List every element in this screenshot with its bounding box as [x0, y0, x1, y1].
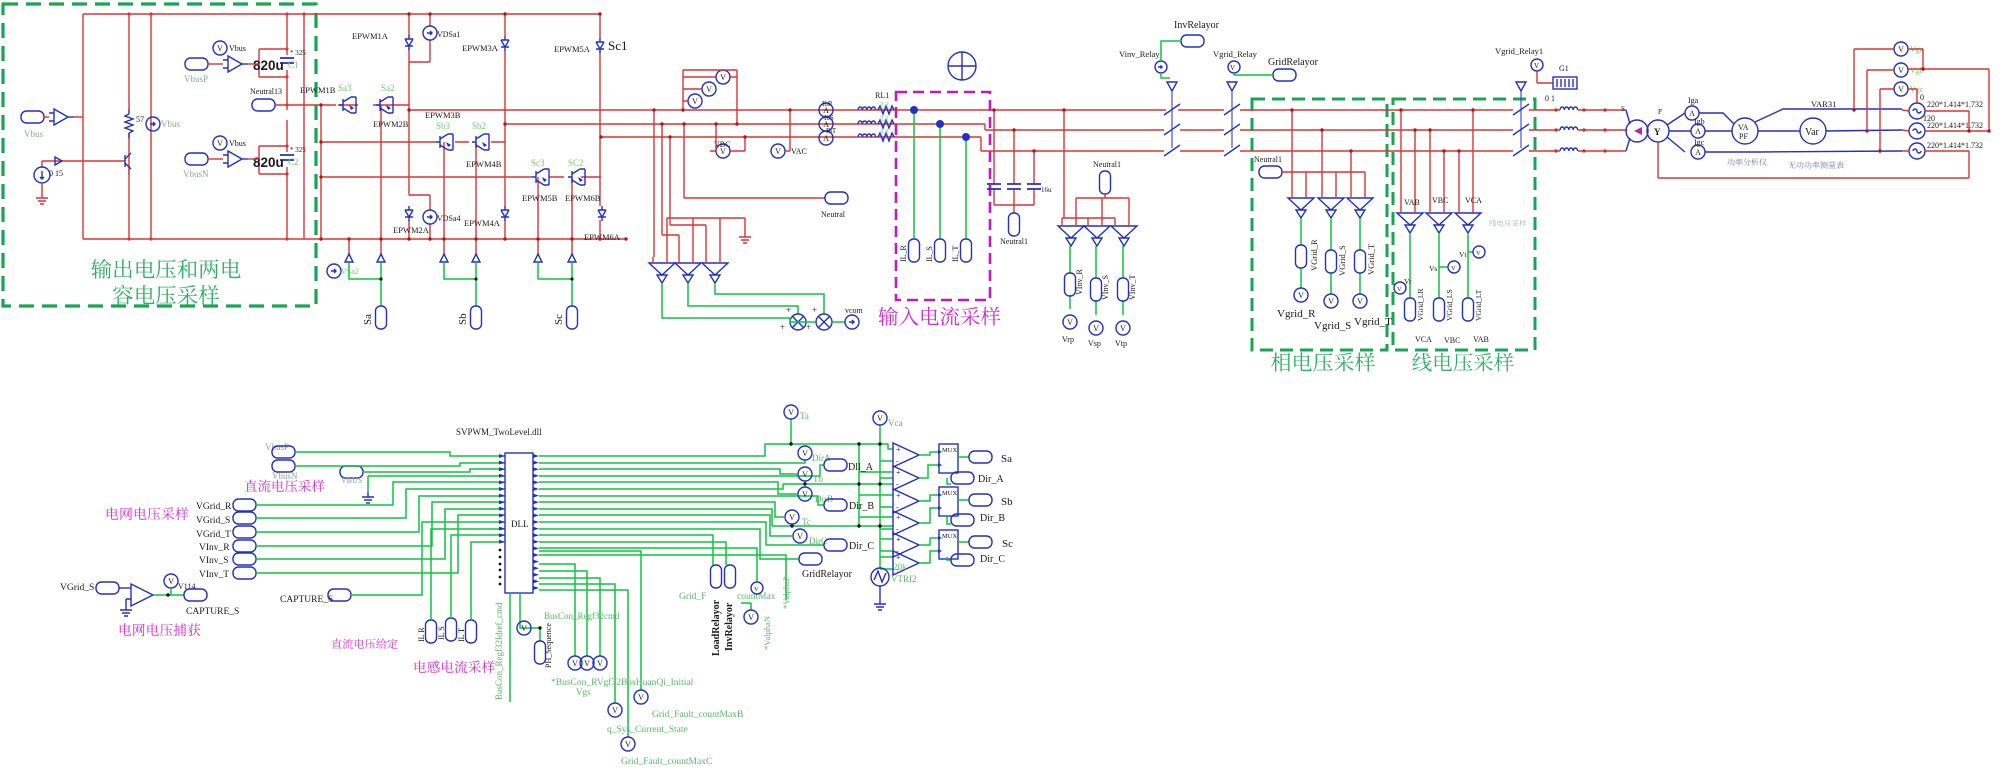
svg-text:InvRelayor: InvRelayor — [724, 602, 735, 651]
svg-text:VGrid_R: VGrid_R — [1309, 239, 1319, 271]
svg-text:Sc1: Sc1 — [608, 38, 628, 53]
svg-text:+: + — [806, 322, 811, 332]
svg-text:Dir_B: Dir_B — [980, 513, 1005, 524]
svg-text:Sb: Sb — [1001, 496, 1013, 508]
svg-text:Sa3: Sa3 — [338, 83, 352, 93]
svg-text:EPWM1A: EPWM1A — [352, 31, 389, 41]
svg-text:VBC: VBC — [1432, 196, 1448, 205]
svg-text:* 325: * 325 — [290, 49, 306, 57]
svg-text:Grid_Fault_countMaxC: Grid_Fault_countMaxC — [621, 757, 712, 767]
svg-text:Sc3: Sc3 — [531, 158, 545, 168]
svg-text:Dll_A: Dll_A — [848, 462, 874, 473]
svg-text:EPWM1B: EPWM1B — [300, 85, 336, 95]
svg-text:V: V — [1476, 250, 1481, 257]
svg-text:Vs: Vs — [1429, 264, 1437, 273]
svg-text:EPWM5B: EPWM5B — [522, 193, 558, 203]
svg-text:GridRelayor: GridRelayor — [802, 569, 853, 580]
svg-text:vcom: vcom — [845, 306, 864, 315]
svg-text:SVPWM_TwoLevel.dll: SVPWM_TwoLevel.dll — [456, 427, 542, 437]
svg-text:EPWM3A: EPWM3A — [462, 43, 499, 53]
svg-text:220*1.414*1.732: 220*1.414*1.732 — [1927, 121, 1983, 130]
svg-text:VTRI2: VTRI2 — [891, 574, 917, 584]
svg-text:VDSa4: VDSa4 — [437, 214, 461, 223]
svg-text:Sa: Sa — [1001, 453, 1012, 465]
svg-text:Vr: Vr — [1404, 277, 1412, 286]
svg-text:Neutral: Neutral — [821, 210, 846, 219]
svg-text:Vgb: Vgb — [1910, 66, 1924, 75]
svg-text:57: 57 — [136, 115, 144, 124]
svg-text:VBC: VBC — [1444, 336, 1460, 345]
svg-text:Vt: Vt — [1459, 250, 1467, 259]
svg-text:+: + — [780, 322, 785, 332]
svg-text:Neutral1: Neutral1 — [1254, 155, 1282, 164]
svg-text:Vgrid_Relay: Vgrid_Relay — [1213, 49, 1258, 59]
svg-text:VGrid_LT: VGrid_LT — [1474, 289, 1483, 321]
svg-text:VAC: VAC — [791, 147, 807, 156]
svg-text:IL R: IL R — [417, 627, 426, 642]
svg-text:IL T: IL T — [457, 628, 466, 642]
svg-text:Iga: Iga — [1688, 96, 1699, 105]
svg-text:EPWM5A: EPWM5A — [554, 44, 591, 54]
svg-text:*ValphaP: *ValphaP — [781, 576, 791, 609]
svg-text:VDSa1: VDSa1 — [437, 30, 461, 39]
svg-text:IL_S: IL_S — [925, 246, 934, 262]
svg-text:PF: PF — [1739, 132, 1748, 141]
svg-text:Ta: Ta — [800, 411, 809, 421]
svg-text:LoadRelayor: LoadRelayor — [711, 599, 722, 656]
svg-text:EPWM2A: EPWM2A — [393, 225, 430, 235]
svg-text:2.2: 2.2 — [880, 101, 889, 109]
svg-text:VBUS: VBUS — [341, 476, 362, 485]
svg-text:BusCon_Regf32Idref_cmd: BusCon_Regf32Idref_cmd — [494, 602, 504, 700]
svg-text:Tc: Tc — [802, 517, 811, 527]
svg-text:Grid_F: Grid_F — [679, 592, 706, 602]
svg-text:VGrid_S: VGrid_S — [1337, 245, 1347, 276]
svg-text:220*1.414*1.732: 220*1.414*1.732 — [1927, 141, 1983, 150]
svg-text:CAPTURE_S: CAPTURE_S — [186, 607, 239, 617]
svg-text:S: S — [1621, 105, 1625, 113]
svg-text:VCA: VCA — [1465, 196, 1482, 205]
svg-text:InvRelayor: InvRelayor — [1174, 20, 1220, 31]
svg-text:SC2: SC2 — [568, 158, 584, 168]
svg-text:DLL: DLL — [511, 519, 529, 529]
svg-text:V: V — [754, 586, 759, 593]
svg-text:Vrp: Vrp — [1062, 335, 1074, 344]
svg-text:C1: C1 — [288, 60, 299, 70]
svg-text:0 1: 0 1 — [1545, 94, 1555, 103]
svg-text:Sa2: Sa2 — [381, 83, 395, 93]
svg-text:*ValphaN: *ValphaN — [762, 616, 772, 650]
svg-text:IL_R: IL_R — [899, 244, 908, 262]
svg-text:IL_T: IL_T — [951, 245, 960, 262]
svg-text:Vca: Vca — [888, 418, 903, 428]
svg-text:Vbus: Vbus — [229, 44, 246, 53]
svg-text:+: + — [812, 305, 817, 315]
svg-text:Sb3: Sb3 — [436, 121, 451, 131]
svg-text:Grid_Fault_countMaxB: Grid_Fault_countMaxB — [652, 710, 743, 720]
svg-text:Vgrid_S: Vgrid_S — [1314, 320, 1351, 332]
svg-text:VSa2: VSa2 — [341, 267, 359, 276]
svg-text:EPWM4A: EPWM4A — [464, 218, 501, 228]
svg-text:VGrid_LS: VGrid_LS — [1445, 289, 1454, 321]
svg-text:VInv_T: VInv_T — [199, 570, 229, 580]
svg-text:V: V — [1397, 286, 1402, 293]
svg-text:+: + — [786, 305, 791, 315]
svg-text:Vgs: Vgs — [576, 687, 591, 697]
svg-text:VGrid_S: VGrid_S — [60, 583, 94, 593]
svg-text:CAPTURE_S: CAPTURE_S — [280, 595, 333, 605]
svg-text:VInv_R: VInv_R — [199, 543, 230, 553]
svg-text:VInv_T: VInv_T — [1128, 275, 1137, 300]
svg-text:IbR: IbR — [822, 100, 833, 108]
svg-text:EPWM6B: EPWM6B — [565, 193, 601, 203]
svg-text:820u: 820u — [253, 155, 284, 170]
svg-text:Vgrid_T: Vgrid_T — [1354, 316, 1392, 328]
svg-text:Vsp: Vsp — [1088, 339, 1101, 348]
svg-text:Y: Y — [1654, 127, 1661, 137]
svg-text:IbS: IbS — [824, 114, 834, 122]
svg-text:VInv_S: VInv_S — [1101, 275, 1110, 300]
svg-text:Vbus: Vbus — [161, 119, 180, 129]
svg-text:Sb2: Sb2 — [472, 121, 486, 131]
svg-text:DirA: DirA — [812, 453, 831, 463]
svg-text:Vtp: Vtp — [1115, 339, 1127, 348]
svg-text:G1: G1 — [1559, 64, 1569, 73]
svg-text:0: 0 — [1920, 93, 1924, 102]
svg-text:Sc: Sc — [1002, 538, 1013, 550]
svg-text:Vinv_Relay: Vinv_Relay — [1119, 49, 1160, 59]
svg-text:V: V — [1451, 265, 1456, 272]
svg-text:RL1: RL1 — [875, 91, 889, 100]
svg-text:BusCon_Regf32cmd: BusCon_Regf32cmd — [544, 611, 620, 621]
svg-text:* 325: * 325 — [290, 146, 306, 154]
svg-text:Tb: Tb — [813, 474, 823, 484]
svg-text:IbT: IbT — [826, 127, 837, 135]
svg-text:VbusP: VbusP — [265, 442, 289, 452]
svg-text:EPWM3B: EPWM3B — [425, 110, 461, 120]
svg-text:20k: 20k — [893, 562, 907, 572]
svg-text:VGrid_R: VGrid_R — [196, 502, 232, 512]
svg-text:Igc: Igc — [1694, 138, 1705, 147]
svg-text:Dir_C: Dir_C — [980, 554, 1005, 565]
svg-text:Vgrid_Relay1: Vgrid_Relay1 — [1495, 46, 1543, 56]
svg-text:V: V — [1534, 62, 1539, 70]
svg-text:VGrid_T: VGrid_T — [1366, 243, 1376, 275]
svg-text:Dir_A: Dir_A — [978, 474, 1004, 485]
svg-text:VInv_S: VInv_S — [199, 556, 229, 566]
svg-text:*BusCon_RVgf32BusHuanQi_Initia: *BusCon_RVgf32BusHuanQi_Initial — [551, 677, 694, 688]
svg-text:Neutral1: Neutral1 — [1000, 237, 1028, 246]
svg-text:2.2: 2.2 — [880, 115, 889, 123]
svg-text:VAR31: VAR31 — [1811, 99, 1836, 109]
svg-text:IL S: IL S — [437, 626, 446, 640]
svg-text:Dir_C: Dir_C — [849, 541, 874, 552]
svg-text:VA: VA — [1738, 123, 1749, 132]
svg-text:Igb: Igb — [1694, 117, 1705, 126]
svg-text:q_Sys_Current_State: q_Sys_Current_State — [607, 725, 688, 735]
svg-text:2.2: 2.2 — [880, 128, 889, 136]
svg-text:VbusN: VbusN — [183, 169, 209, 179]
svg-text:VCA: VCA — [1415, 335, 1432, 344]
svg-text:Var: Var — [1805, 127, 1820, 138]
svg-text:C2: C2 — [288, 157, 299, 167]
svg-text:Vbus: Vbus — [229, 139, 246, 148]
svg-text:Dir_B: Dir_B — [849, 501, 874, 512]
svg-text:Vgrid_R: Vgrid_R — [1277, 308, 1316, 320]
svg-text:VGrid_T: VGrid_T — [196, 530, 231, 540]
svg-text:0 15: 0 15 — [49, 169, 63, 178]
svg-text:120: 120 — [1923, 114, 1935, 123]
svg-text:VbusP: VbusP — [184, 74, 208, 84]
svg-text:VInv_R: VInv_R — [1075, 269, 1084, 295]
svg-text:Sc: Sc — [553, 314, 565, 325]
svg-text:Neutral1: Neutral1 — [1093, 160, 1121, 169]
svg-text:16u: 16u — [1041, 186, 1052, 194]
svg-text:820u: 820u — [253, 58, 284, 73]
svg-text:VbusN: VbusN — [272, 471, 298, 481]
svg-text:EPWM4B: EPWM4B — [466, 159, 502, 169]
svg-text:GridRelayor: GridRelayor — [1268, 57, 1319, 68]
svg-text:Vbus: Vbus — [24, 129, 43, 139]
svg-text:V: V — [1230, 64, 1235, 72]
svg-text:EPWM6A: EPWM6A — [584, 232, 621, 242]
svg-text:VAB: VAB — [1473, 335, 1489, 344]
svg-text:P: P — [1658, 108, 1662, 116]
svg-text:VGrid_S: VGrid_S — [196, 516, 230, 526]
svg-text:VAB: VAB — [1404, 198, 1420, 207]
svg-text:PH_Sequence: PH_Sequence — [544, 623, 553, 668]
svg-text:EPWM2B: EPWM2B — [373, 119, 409, 129]
svg-text:VGrid_LR: VGrid_LR — [1416, 289, 1425, 322]
svg-text:Sa: Sa — [362, 314, 374, 325]
svg-text:220*1.414*1.732: 220*1.414*1.732 — [1927, 100, 1983, 109]
svg-text:Neutral13: Neutral13 — [250, 87, 282, 96]
svg-text:Sb: Sb — [457, 313, 469, 325]
